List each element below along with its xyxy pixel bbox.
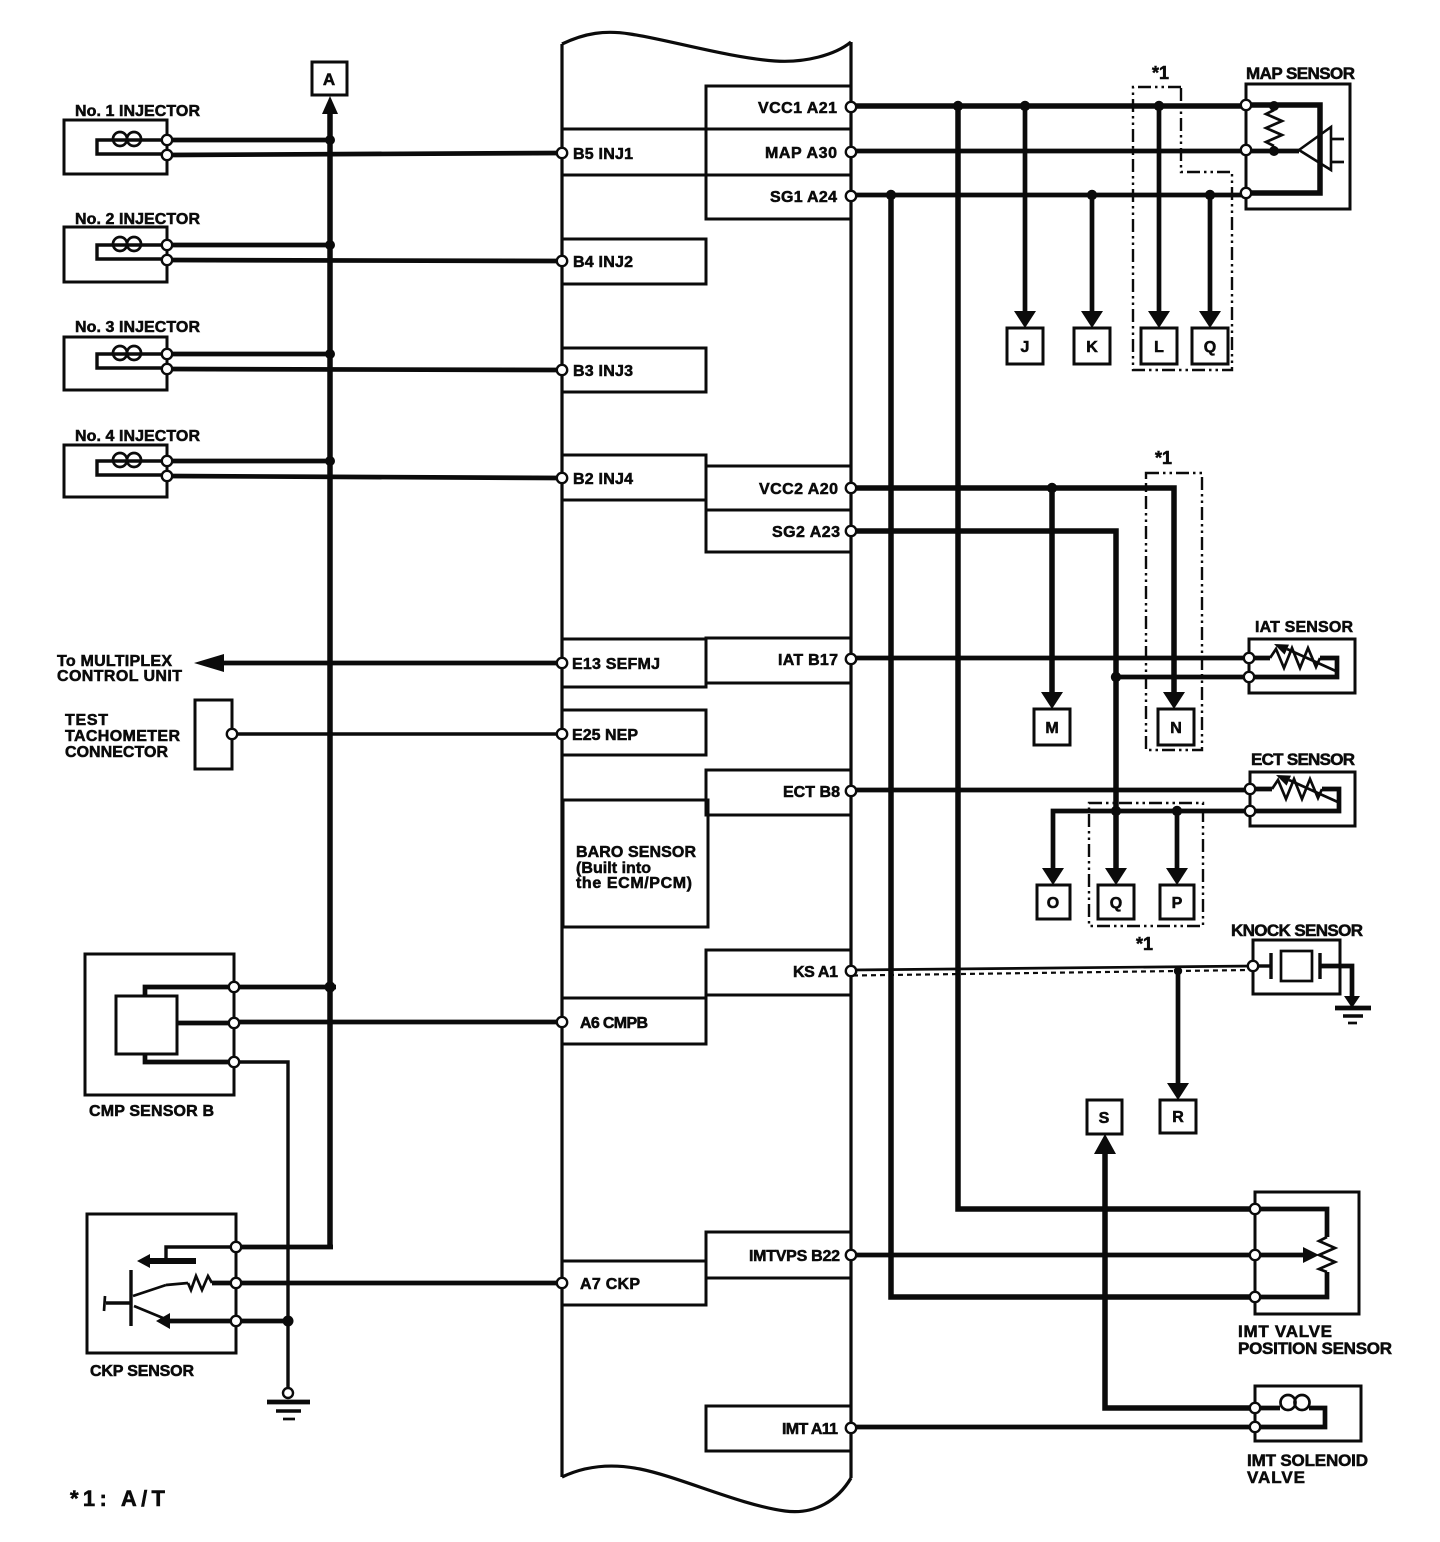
svg-text:O: O — [1047, 895, 1059, 912]
svg-text:A7 CKP: A7 CKP — [580, 1276, 640, 1293]
svg-text:VALVE: VALVE — [1247, 1468, 1305, 1487]
svg-text:E25 NEP: E25 NEP — [572, 727, 638, 744]
svg-text:TACHOMETER: TACHOMETER — [65, 728, 180, 745]
svg-text:SG2 A23: SG2 A23 — [772, 524, 840, 541]
svg-text:IMTVPS B22: IMTVPS B22 — [749, 1248, 840, 1265]
svg-text:MAP A30: MAP A30 — [765, 145, 837, 162]
svg-text:the ECM/PCM): the ECM/PCM) — [576, 875, 692, 892]
svg-text:S: S — [1099, 1110, 1110, 1127]
svg-text:IAT SENSOR: IAT SENSOR — [1255, 619, 1353, 636]
svg-text:ECT SENSOR: ECT SENSOR — [1251, 750, 1355, 769]
svg-text:CKP SENSOR: CKP SENSOR — [90, 1363, 194, 1380]
svg-text:B2 INJ4: B2 INJ4 — [573, 471, 633, 488]
svg-text:CONTROL UNIT: CONTROL UNIT — [57, 668, 182, 685]
svg-text:*1: *1 — [1136, 934, 1153, 954]
svg-text:IAT B17: IAT B17 — [778, 652, 838, 669]
svg-text:VCC2 A20: VCC2 A20 — [759, 481, 838, 498]
svg-text:P: P — [1172, 895, 1183, 912]
svg-text:Q: Q — [1204, 339, 1216, 356]
svg-text:Q: Q — [1110, 895, 1122, 912]
svg-text:No. 1 INJECTOR: No. 1 INJECTOR — [75, 103, 200, 120]
svg-text:B3 INJ3: B3 INJ3 — [573, 363, 633, 380]
svg-text:K: K — [1086, 339, 1098, 356]
svg-text:KS A1: KS A1 — [793, 964, 838, 981]
svg-text:B5 INJ1: B5 INJ1 — [573, 146, 633, 163]
svg-text:SG1 A24: SG1 A24 — [770, 189, 837, 206]
svg-text:ECT B8: ECT B8 — [783, 784, 840, 801]
svg-text:E13 SEFMJ: E13 SEFMJ — [572, 656, 660, 673]
svg-text:No. 2 INJECTOR: No. 2 INJECTOR — [75, 211, 200, 228]
svg-text:TEST: TEST — [65, 712, 108, 729]
svg-text:KNOCK SENSOR: KNOCK SENSOR — [1231, 921, 1363, 940]
svg-text:M: M — [1045, 720, 1058, 737]
svg-text:*1: *1 — [1152, 63, 1169, 83]
svg-text:L: L — [1154, 339, 1164, 356]
svg-text:*1: *1 — [1155, 448, 1172, 468]
svg-text:MAP SENSOR: MAP SENSOR — [1246, 64, 1355, 83]
svg-text:No. 4 INJECTOR: No. 4 INJECTOR — [75, 428, 200, 445]
svg-text:N: N — [1170, 720, 1182, 737]
svg-text:J: J — [1021, 339, 1030, 356]
svg-text:CONNECTOR: CONNECTOR — [65, 744, 168, 761]
svg-text:A: A — [323, 70, 335, 89]
svg-text:CMP SENSOR B: CMP SENSOR B — [89, 1103, 214, 1120]
svg-text:POSITION SENSOR: POSITION SENSOR — [1238, 1339, 1392, 1358]
svg-text:BARO SENSOR: BARO SENSOR — [576, 844, 696, 861]
svg-text:VCC1 A21: VCC1 A21 — [758, 100, 837, 117]
svg-text:R: R — [1172, 1109, 1184, 1126]
svg-text:No. 3 INJECTOR: No. 3 INJECTOR — [75, 319, 200, 336]
svg-text:A6 CMPB: A6 CMPB — [580, 1015, 648, 1032]
svg-text:IMT A11: IMT A11 — [782, 1421, 838, 1438]
svg-text:B4 INJ2: B4 INJ2 — [573, 254, 633, 271]
